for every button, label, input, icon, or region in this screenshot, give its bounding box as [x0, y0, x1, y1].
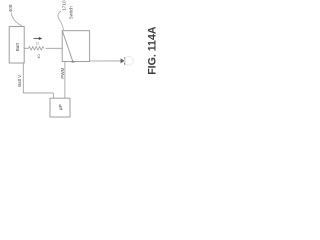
svg-text:PWM: PWM — [60, 68, 65, 79]
svg-text:4Ω: 4Ω — [37, 54, 41, 59]
switch diagonal — [62, 31, 73, 62]
output terminal circle — [124, 56, 133, 65]
svg-text:I2: I2 — [36, 42, 40, 45]
leader from 408 to battery box — [11, 13, 22, 26]
wire sense line stub into microprocessor — [52, 93, 54, 98]
background — [0, 0, 159, 120]
output terminal bar — [124, 57, 126, 65]
svg-text:Batt: Batt — [15, 42, 20, 51]
svg-text:1710: 1710 — [61, 0, 66, 11]
svg-text:µP: µP — [58, 104, 64, 110]
wire sense line horizontal — [23, 92, 54, 94]
wire battery to resistor — [24, 47, 28, 49]
wire resistor to switch box — [46, 47, 63, 49]
junction where diagonal meets bottom edge — [71, 61, 75, 63]
current arrow I — [34, 38, 40, 40]
switch 1710 box — [62, 31, 89, 62]
svg-text:Switch: Switch — [69, 6, 74, 19]
battery Batt — [9, 27, 24, 64]
microprocessor uP box — [50, 98, 70, 117]
wire battery bottom sense line (vertical) — [22, 63, 24, 93]
svg-text:408: 408 — [8, 4, 13, 12]
output terminal arrow — [121, 58, 125, 63]
wire switch bottom to microprocessor (PWM drive) — [64, 62, 66, 99]
resistor (heater coil) — [29, 47, 44, 51]
leader from 1710 to switch box — [58, 11, 64, 30]
svg-text:Batt V: Batt V — [17, 75, 22, 87]
svg-text:FIG. 114A: FIG. 114A — [146, 26, 158, 75]
wire switch box to output terminal — [90, 60, 122, 62]
